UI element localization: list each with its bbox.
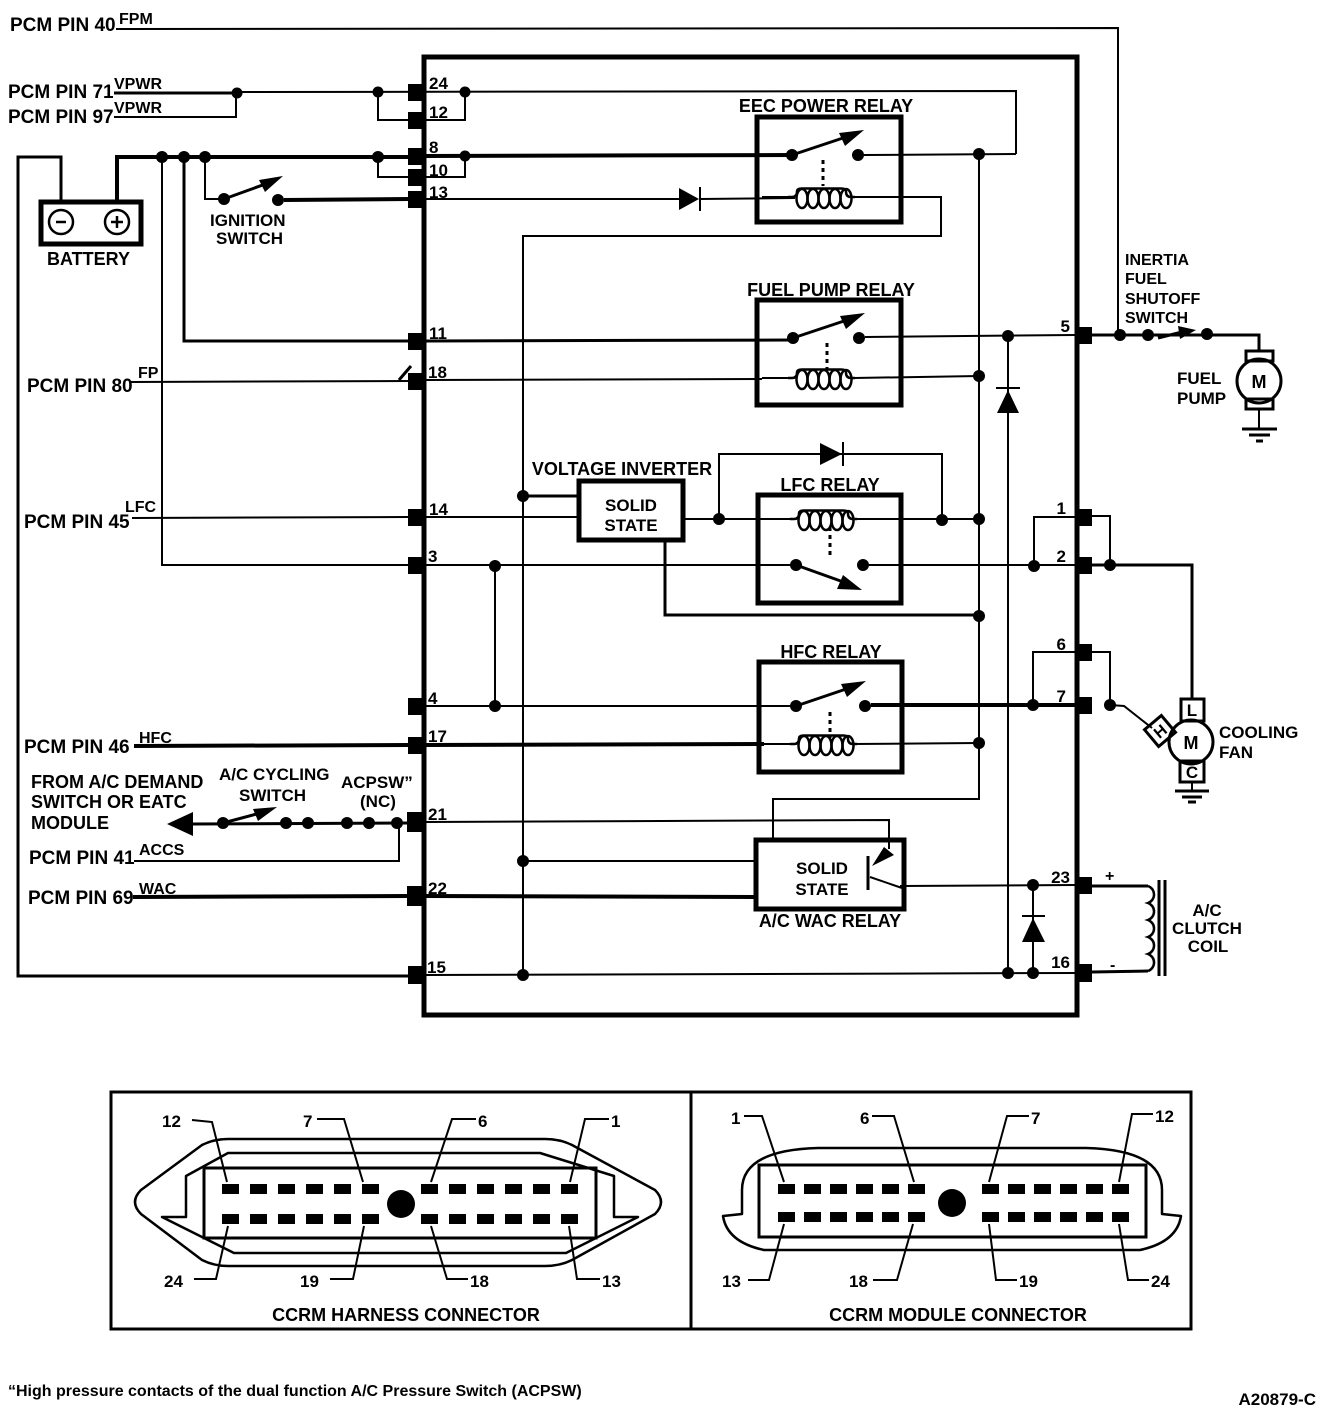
pin 14 (408, 509, 425, 526)
A/C clutch coil windings (1148, 886, 1154, 971)
junction dot ground line at EEC coil return (517, 969, 529, 981)
junction dot coil return on power rail (973, 370, 985, 382)
WAC transistor emitter (870, 877, 902, 888)
wire outside bracket pin8 to pin10 (378, 157, 409, 177)
ground symbol cooling fan (1175, 790, 1209, 793)
junction dot WAC diode top (1027, 879, 1039, 891)
svg-text:FAN: FAN (1219, 743, 1253, 762)
wire feeder battery to pin 11 line (fuel pump relay contact supply) (184, 157, 409, 341)
HFC relay blade arrowhead (841, 681, 866, 697)
pin 24 (408, 84, 425, 101)
junction dot inside bracket pin6/pin7 (1027, 699, 1039, 711)
harness connector center post (387, 1190, 415, 1218)
svg-text:SWITCH OR EATC: SWITCH OR EATC (31, 792, 187, 812)
wire LFC from PCM PIN 45 to pin 14 (132, 517, 409, 518)
inertia switch left contact (1142, 329, 1154, 341)
inertia switch blade (1158, 332, 1182, 338)
junction dot inverter output to diode branch (713, 513, 725, 525)
LFC relay blade arrowhead (837, 575, 862, 590)
junction dot battery line x162 (156, 151, 168, 163)
svg-text:1: 1 (731, 1109, 740, 1128)
HFC relay coil (764, 743, 793, 745)
A/C cycling switch blade (223, 812, 264, 823)
wire LFC relay output to pin 2 (869, 564, 1075, 566)
svg-text:5: 5 (1061, 317, 1070, 336)
junction dot battery line to pin10 bracket (372, 151, 384, 163)
svg-text:PCM PIN 40: PCM PIN 40 (10, 15, 116, 36)
connector panel divider (690, 1092, 693, 1329)
CCRM harness connector inner shell with notches (162, 1153, 638, 1253)
junction dot HFC coil on power rail (973, 737, 985, 749)
pin 13 (408, 191, 425, 208)
wire HFC from PCM PIN 46 to pin 17 (134, 745, 409, 746)
wire fuel pump relay output to pin 5 (865, 335, 1075, 337)
wire pin 8 line into EEC relay contact (425, 155, 792, 156)
battery negative terminal (49, 210, 73, 234)
wire VPWR pin97 joining pin71 line (114, 94, 236, 117)
svg-text:FROM A/C DEMAND: FROM A/C DEMAND (31, 772, 203, 792)
svg-text:24: 24 (164, 1272, 183, 1291)
wire pin 1 outside bracket (1092, 516, 1110, 565)
junction dot LFC diode return (936, 514, 948, 526)
pin 22 (407, 886, 425, 906)
voltage inverter solid state box (579, 481, 683, 540)
cooling fan C terminal (1180, 761, 1204, 782)
junction dot inside bracket pin8 (460, 151, 471, 162)
junction dot pin3 to pin4 bracket top (489, 560, 501, 572)
junction dot VPWR outside bracket to pin 12 (373, 87, 384, 98)
junction dot EEC output to power rail (973, 148, 985, 160)
EEC relay blade arrowhead (839, 130, 864, 146)
pin 6 (1075, 644, 1092, 661)
wire fuel pump to ground (1258, 409, 1260, 428)
EEC relay left contact (786, 149, 798, 161)
wire pin 23 to A/C clutch coil (1092, 885, 1148, 888)
svg-text:VPWR: VPWR (114, 100, 162, 117)
EEC relay blade (792, 136, 849, 155)
svg-text:SOLID: SOLID (796, 859, 848, 878)
cooling fan H terminal (rotated) (1145, 716, 1176, 747)
wire FPM from PCM PIN 40 to inertia switch node (116, 28, 1118, 335)
HFC relay right contact (859, 700, 871, 712)
relay box EEC POWER RELAY (757, 117, 901, 222)
junction dot ground line at WAC diode (1027, 967, 1039, 979)
A/C cycling switch blade arrowhead (253, 807, 277, 821)
pin 10 (408, 169, 425, 186)
svg-text:PCM PIN 80: PCM PIN 80 (27, 376, 133, 397)
svg-text:FUEL PUMP RELAY: FUEL PUMP RELAY (747, 280, 915, 300)
wire bracket pin3 line to pin4 line (494, 566, 496, 706)
wire ground line pin 15 to pin 16 (425, 973, 1075, 975)
junction dot FPM line on pin5 wire (1114, 329, 1126, 341)
wire clamp diode line vertical to pin 16 line (1007, 336, 1009, 973)
svg-text:7: 7 (303, 1112, 312, 1131)
svg-text:CCRM MODULE CONNECTOR: CCRM MODULE CONNECTOR (829, 1305, 1087, 1325)
wire inside bracket pin24 to pin12 (426, 92, 465, 120)
svg-text:STATE: STATE (604, 516, 657, 535)
svg-text:12: 12 (1155, 1107, 1174, 1126)
svg-text:FP: FP (138, 365, 159, 382)
connector panel frame (111, 1092, 1191, 1329)
pin 1 (1075, 509, 1092, 526)
wire battery positive feed line (117, 157, 410, 202)
svg-text:16: 16 (1051, 953, 1070, 972)
svg-text:6: 6 (860, 1109, 869, 1128)
relay box FUEL PUMP RELAY (757, 300, 901, 405)
svg-text:LFC RELAY: LFC RELAY (780, 475, 879, 495)
svg-text:1: 1 (611, 1112, 620, 1131)
svg-text:12: 12 (162, 1112, 181, 1131)
junction dot battery line x184 (178, 151, 190, 163)
fuel pump relay blade arrowhead (840, 313, 865, 329)
relay box A/C WAC solid state (756, 840, 904, 909)
wire inverter bottom to power rail (665, 540, 979, 615)
junction dot inverter supply tap (517, 490, 529, 502)
A/C cycling switch left contact (217, 817, 229, 829)
svg-text:18: 18 (470, 1272, 489, 1291)
svg-text:(NC): (NC) (360, 792, 396, 811)
junction dot ground line at clamp diode line (1002, 967, 1014, 979)
junction dot WAC supply tap (517, 855, 529, 867)
CCRM module outer box (424, 57, 1077, 1015)
svg-text:PCM PIN 71: PCM PIN 71 (8, 82, 114, 103)
wire ACCS from PCM PIN 41 joining cycling line (134, 826, 399, 861)
HFC relay blade (796, 687, 852, 706)
svg-text:C: C (1186, 763, 1198, 782)
junction dot VPWR inside bracket to pin 12 (460, 87, 471, 98)
svg-text:INERTIA: INERTIA (1125, 252, 1189, 269)
wire fuel pump coil to power rail (854, 376, 979, 378)
module pins top row (778, 1184, 795, 1194)
pin 16 (1075, 964, 1092, 982)
module connector center post (938, 1189, 966, 1217)
wire feeder battery to pin 3 line (LFC contact supply) (162, 157, 409, 565)
wire pin 6 outside bracket (1092, 652, 1110, 705)
ACPSW contact left (341, 817, 353, 829)
wire switched power rail vertical (773, 154, 979, 840)
junction dot inside bracket pin1/pin2 (1028, 560, 1040, 572)
LFC relay right contact (857, 559, 869, 571)
svg-text:24: 24 (429, 74, 448, 93)
wire cooling fan to ground (1191, 782, 1193, 790)
pin 3 (408, 557, 425, 574)
svg-text:SWITCH: SWITCH (239, 786, 306, 805)
wire VPWR pin71 to pin 24 and EEC relay contact loop (114, 92, 240, 95)
A/C demand input arrow (167, 812, 193, 836)
svg-text:A20879-C: A20879-C (1239, 1390, 1317, 1409)
svg-text:VPWR: VPWR (114, 76, 162, 93)
wire pin 21 line to WAC transistor (425, 820, 889, 849)
pin 15 (408, 966, 425, 984)
wire inside bracket pin8 to pin10 (426, 156, 465, 177)
relay box LFC RELAY (758, 495, 901, 603)
wire pin 14 LFC line into inverter (425, 516, 579, 518)
svg-text:SWITCH: SWITCH (216, 229, 283, 248)
svg-text:PCM PIN 69: PCM PIN 69 (28, 888, 134, 909)
wire inside bracket pin1 to pin2 (1034, 517, 1075, 566)
svg-text:1: 1 (1057, 499, 1066, 518)
svg-text:13: 13 (722, 1272, 741, 1291)
wire inverter supply from EEC coil return vertical (523, 495, 579, 498)
fuel pump motor bottom cap (1246, 399, 1273, 409)
relay box HFC RELAY (759, 662, 902, 772)
pin 5 (1075, 327, 1092, 344)
svg-text:12: 12 (429, 103, 448, 122)
diode D1 on pin 13 line (679, 188, 699, 210)
svg-text:13: 13 (602, 1272, 621, 1291)
junction dot outside bracket pin6/pin7 (1104, 699, 1116, 711)
svg-text:BATTERY: BATTERY (47, 249, 130, 269)
svg-text:IGNITION: IGNITION (210, 211, 286, 230)
EEC relay actuator dashed link (822, 160, 825, 186)
svg-text:FUEL: FUEL (1125, 271, 1167, 288)
svg-text:FPM: FPM (119, 11, 153, 28)
svg-text:FUEL: FUEL (1177, 369, 1221, 388)
EEC relay coil (762, 196, 791, 198)
CCRM harness connector body (204, 1168, 596, 1238)
pin 18 (408, 373, 425, 390)
svg-text:19: 19 (300, 1272, 319, 1291)
pin 2 (1075, 557, 1092, 574)
pin 23 (1075, 877, 1092, 894)
fuel pump relay actuator dashed link (826, 343, 829, 369)
wire pin 5 to inertia switch and fuel pump (1092, 335, 1259, 351)
A/C clutch coil core bars (1158, 880, 1161, 976)
junction dot VPWR97/VPWR71 (232, 88, 243, 99)
svg-text:24: 24 (1151, 1272, 1170, 1291)
svg-text:PCM PIN 46: PCM PIN 46 (24, 737, 130, 758)
LFC relay left contact (790, 559, 802, 571)
svg-text:7: 7 (1031, 1109, 1040, 1128)
inertia switch blade arrowhead (1178, 326, 1196, 339)
svg-text:PCM PIN 97: PCM PIN 97 (8, 107, 114, 128)
wire pin 17 HFC line into coil (425, 744, 764, 745)
wire WAC clamp diode branch (1032, 885, 1034, 973)
wire HFC relay output to pin 7 (871, 703, 1075, 707)
svg-text:LFC: LFC (125, 499, 157, 516)
svg-text:MODULE: MODULE (31, 813, 109, 833)
pin 7 (1075, 697, 1092, 714)
fuel pump relay blade (793, 319, 850, 338)
fuel pump relay right contact (853, 332, 865, 344)
svg-text:CCRM HARNESS CONNECTOR: CCRM HARNESS CONNECTOR (272, 1305, 540, 1325)
LFC relay blade (down) (796, 565, 849, 584)
wire pin 18 FP line into coil (425, 379, 762, 380)
wire WAC output to pin 23 (900, 885, 1075, 886)
ACPSW contact right (363, 817, 375, 829)
svg-text:19: 19 (1019, 1272, 1038, 1291)
wire ignition switch to pin 13 (284, 199, 409, 200)
ignition switch left contact (218, 193, 230, 205)
svg-text:A/C CYCLING: A/C CYCLING (219, 765, 330, 784)
HFC relay left contact (790, 700, 802, 712)
cooling fan L terminal (1181, 699, 1204, 721)
svg-text:CLUTCH: CLUTCH (1172, 919, 1242, 938)
junction dot diode line top on pin5 line (1002, 330, 1014, 342)
wire HFC coil to power rail (853, 743, 979, 744)
wire pin 13 line to EEC coil (425, 198, 679, 200)
junction dot outside bracket pin1/pin2 (1104, 559, 1116, 571)
diode D4 WAC clamp (1022, 915, 1045, 917)
svg-text:SHUTOFF: SHUTOFF (1125, 291, 1200, 308)
junction dot battery line x205 (199, 151, 211, 163)
inertia switch right contact (1201, 328, 1213, 340)
svg-text:STATE: STATE (795, 880, 848, 899)
pin 8 (408, 148, 425, 165)
wire pin 3 line into LFC relay contact (425, 564, 796, 566)
wire pin 22 WAC line into solid state box (425, 896, 756, 897)
svg-text:PCM PIN 45: PCM PIN 45 (24, 512, 130, 533)
module pins bottom row (778, 1212, 795, 1222)
wire A/C clutch coil to pin 16 (1092, 971, 1148, 972)
junction dot cycling line x308 (302, 817, 314, 829)
harness pins bottom row (222, 1214, 239, 1224)
CCRM module connector body (759, 1165, 1146, 1237)
ignition switch right contact (272, 194, 284, 206)
wire pin 4 line into HFC relay contact (425, 705, 796, 707)
junction dot LFC coil on power rail (973, 513, 985, 525)
fuel pump motor top cap (1246, 351, 1273, 361)
svg-text:PCM PIN 41: PCM PIN 41 (29, 848, 135, 869)
svg-text:HFC RELAY: HFC RELAY (780, 642, 881, 662)
pin 11 (408, 333, 425, 350)
svg-text:SWITCH: SWITCH (1125, 310, 1188, 327)
wire EEC coil right to return loop (523, 197, 941, 975)
HFC relay actuator dashed link (829, 712, 832, 738)
pin 17 (408, 737, 425, 754)
battery positive terminal (105, 210, 129, 234)
svg-text:A/C: A/C (1192, 901, 1221, 920)
harness pins top row (222, 1184, 239, 1194)
fuel pump motor body M (1237, 359, 1281, 403)
svg-text:“High pressure contacts of the: “High pressure contacts of the dual func… (8, 1383, 582, 1400)
junction dot pin4 bracket bottom (489, 700, 501, 712)
wire pin 2 to cooling fan L terminal (1092, 565, 1192, 699)
wire FP from PCM PIN 80 to pin 18 (130, 381, 409, 382)
svg-text:EEC POWER RELAY: EEC POWER RELAY (739, 96, 913, 116)
svg-text:COOLING: COOLING (1219, 723, 1298, 742)
ignition switch blade (224, 182, 271, 199)
wire battery to ignition switch (205, 157, 222, 199)
wire outside bracket pin24 to pin12 (378, 92, 409, 120)
wire pin 11 line into fuel pump relay contact (425, 340, 793, 341)
svg-text:2: 2 (1057, 547, 1066, 566)
svg-text:ACPSW”: ACPSW” (341, 773, 413, 792)
pin 12 (408, 112, 425, 129)
svg-text:SOLID: SOLID (605, 496, 657, 515)
svg-text:L: L (1187, 701, 1197, 720)
EEC relay right contact (852, 149, 864, 161)
wire A/C demand to A/C cycling switch to pin 21 (193, 823, 409, 824)
svg-text:+: + (1105, 868, 1114, 885)
svg-text:M: M (1252, 372, 1267, 392)
LFC relay coil (790, 511, 857, 520)
CCRM module connector outer shell (723, 1148, 1181, 1250)
WAC transistor base bar (867, 856, 870, 890)
wire inside bracket pin6 to pin7 (1033, 652, 1075, 705)
svg-text:PUMP: PUMP (1177, 389, 1226, 408)
diode D3 LFC flyback (820, 443, 842, 465)
junction dot ACCS riser on cycling line (391, 817, 403, 829)
wire pin 7 to cooling fan H terminal (1110, 705, 1152, 728)
battery BATTERY box (41, 202, 141, 244)
cooling fan motor body M (1169, 720, 1213, 764)
fuel pump relay left contact (787, 332, 799, 344)
CCRM harness connector outer shell (135, 1139, 661, 1266)
WAC transistor collector arrowhead (872, 847, 894, 866)
svg-text:VOLTAGE INVERTER: VOLTAGE INVERTER (532, 459, 712, 479)
ignition switch blade arrowhead (259, 176, 283, 192)
svg-text:6: 6 (478, 1112, 487, 1131)
wire WAC from PCM PIN 69 to pin 22 (133, 896, 409, 897)
wire battery negative to ground loop (left outer) (18, 157, 409, 976)
svg-text:M: M (1184, 733, 1199, 753)
svg-text:3: 3 (428, 547, 437, 566)
svg-text:A/C WAC RELAY: A/C WAC RELAY (759, 911, 901, 931)
wire EEC relay output to VPWR loop corner (864, 154, 1016, 155)
diode D2 fuel pump clamp (996, 387, 1020, 389)
wire LFC coil to power rail (856, 518, 979, 520)
pin 21 (407, 812, 425, 832)
svg-text:18: 18 (849, 1272, 868, 1291)
junction dot inverter bottom on power rail (973, 610, 985, 622)
wire inverter output to LFC relay coil (683, 518, 796, 520)
fuel pump relay coil (762, 377, 791, 379)
LFC relay actuator dashed link (829, 527, 832, 558)
pin 4 (408, 698, 425, 715)
A/C cycling switch right contact (280, 817, 292, 829)
svg-text:COIL: COIL (1188, 937, 1229, 956)
ground symbol fuel pump (1242, 428, 1277, 431)
svg-text:ACCS: ACCS (139, 842, 185, 859)
wire LFC flyback diode branch (719, 454, 942, 520)
wire WAC input from EEC coil return vertical (523, 860, 756, 862)
